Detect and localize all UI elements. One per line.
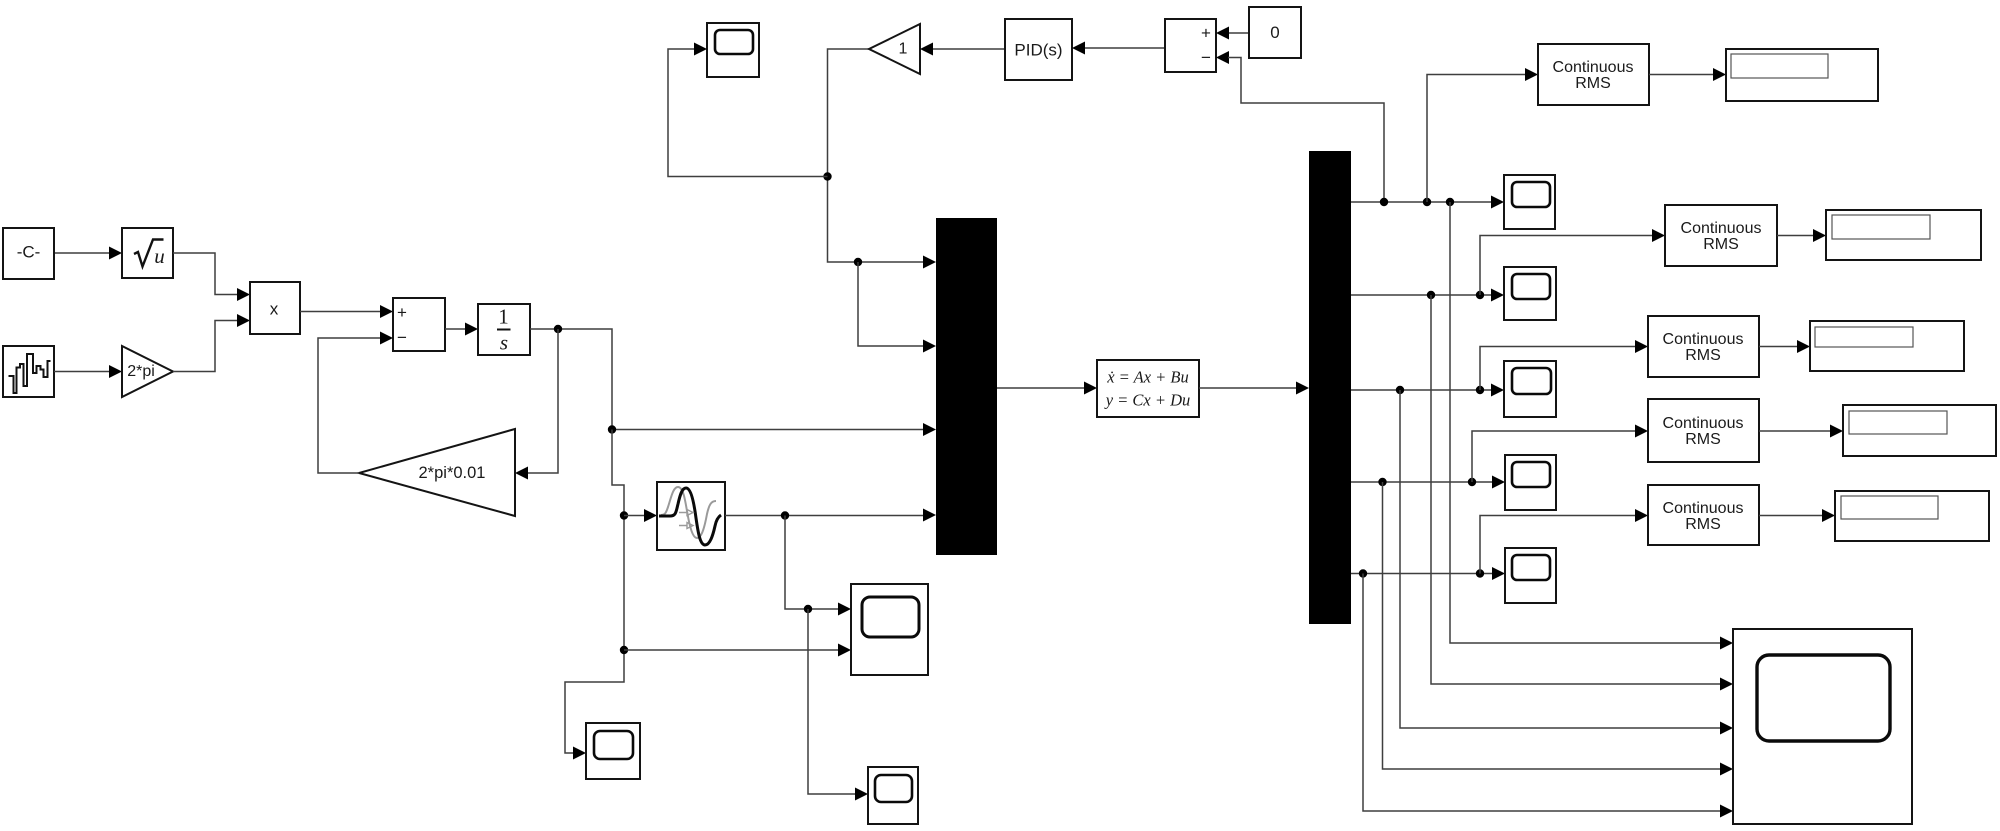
wire gain1 to scope / mux bbox=[823, 49, 936, 269]
wire branch up to RMS4 bbox=[1472, 425, 1648, 483]
wire branch to bottom-right scope bbox=[808, 609, 868, 801]
wire RMS3 to display3 bbox=[1759, 340, 1810, 353]
scope B (two-input) bbox=[851, 584, 928, 675]
svg-text:-C-: -C- bbox=[17, 243, 41, 262]
integrator 1/s bbox=[478, 304, 530, 355]
wire mux to state-space bbox=[997, 382, 1097, 395]
wire RMS2 to display2 bbox=[1777, 229, 1826, 242]
svg-text:2*pi: 2*pi bbox=[127, 363, 155, 380]
gain 2*pi*0.01 bbox=[359, 429, 515, 516]
wire sqrt to product bbox=[173, 253, 250, 301]
svg-text:2*pi*0.01: 2*pi*0.01 bbox=[419, 464, 486, 482]
wire PID to gain1 bbox=[920, 43, 1005, 56]
wire constant 0 to sum2 plus bbox=[1216, 27, 1249, 40]
wire branch to mux input2 bbox=[858, 262, 936, 353]
wire branch up to RMS2 bbox=[1480, 229, 1665, 295]
svg-text:u: u bbox=[154, 244, 165, 268]
wire branch down to big scope in2 bbox=[1431, 295, 1733, 691]
svg-text:0: 0 bbox=[1270, 23, 1279, 42]
wire sine output to mux input4 bbox=[725, 509, 936, 522]
display 3 bbox=[1810, 321, 1964, 371]
wire gain 2*pi*0.01 to sum minus bbox=[318, 332, 393, 474]
svg-text:RMS: RMS bbox=[1685, 431, 1721, 448]
svg-text:y = Cx + Du: y = Cx + Du bbox=[1104, 391, 1191, 410]
PID controller bbox=[1005, 19, 1072, 80]
scope 1 bbox=[1504, 175, 1555, 229]
constant -C- bbox=[3, 228, 54, 279]
svg-text:1: 1 bbox=[899, 41, 908, 58]
mux bbox=[936, 218, 997, 555]
gain 1 (left pointing) bbox=[869, 24, 920, 74]
svg-text:Continuous: Continuous bbox=[1681, 220, 1762, 237]
svg-text:RMS: RMS bbox=[1703, 236, 1739, 253]
svg-text:Continuous: Continuous bbox=[1553, 59, 1634, 76]
scope 2 bbox=[1504, 267, 1556, 320]
svg-text:Continuous: Continuous bbox=[1663, 415, 1744, 432]
wire into sine block bbox=[624, 509, 657, 522]
svg-text:x: x bbox=[270, 300, 279, 319]
svg-text:−: − bbox=[397, 328, 407, 347]
wire feedback to gain 2*pi*0.01 bbox=[515, 329, 558, 480]
svg-text:+: + bbox=[1201, 24, 1211, 43]
wire branch up to RMS1 bbox=[1427, 68, 1538, 202]
wire demux out1 to scope1 bbox=[1351, 196, 1504, 209]
big scope (5 inputs) bbox=[1733, 629, 1912, 824]
svg-text:−: − bbox=[1201, 48, 1211, 67]
state-space block bbox=[1097, 360, 1199, 417]
wire branch down to big scope in4 bbox=[1383, 482, 1734, 776]
wire RMS4 to display4 bbox=[1759, 425, 1843, 438]
small scope bottom-left bbox=[586, 723, 640, 779]
svg-text:PID(s): PID(s) bbox=[1014, 41, 1062, 60]
RMS3 block bbox=[1648, 316, 1759, 377]
wire demux out3 to scope3 bbox=[1351, 384, 1504, 397]
display 4 bbox=[1843, 405, 1996, 456]
gain 2*pi bbox=[122, 346, 173, 397]
scope 5 bbox=[1505, 548, 1556, 603]
display 1 bbox=[1726, 49, 1878, 101]
wire branch down to big scope in3 bbox=[1400, 390, 1733, 735]
wire sum to integrator bbox=[445, 323, 478, 336]
svg-text:1: 1 bbox=[498, 305, 509, 329]
svg-text:ẋ = Ax + Bu: ẋ = Ax + Bu bbox=[1106, 368, 1189, 387]
product x bbox=[250, 282, 300, 334]
wire demux out4 to scope4 bbox=[1351, 476, 1505, 489]
svg-text:Continuous: Continuous bbox=[1663, 500, 1744, 517]
wire demux out5 to scope5 bbox=[1351, 567, 1505, 580]
sine function block bbox=[657, 482, 725, 550]
wire -C- to sqrt bbox=[54, 247, 122, 260]
svg-text:RMS: RMS bbox=[1575, 75, 1611, 92]
wire signal builder to gain 2*pi bbox=[54, 365, 122, 378]
wire branch down to big scope in1 bbox=[1450, 202, 1733, 650]
svg-text:Continuous: Continuous bbox=[1663, 331, 1744, 348]
svg-text:RMS: RMS bbox=[1685, 347, 1721, 364]
wire sine branch down to scope B input1 bbox=[785, 516, 851, 616]
wire branch to top scope bbox=[668, 43, 828, 177]
RMS2 block bbox=[1665, 205, 1777, 266]
wire sum2 minus from demux out1 bbox=[1216, 51, 1384, 202]
display 2 bbox=[1826, 210, 1981, 260]
wire RMS1 to display1 bbox=[1649, 68, 1726, 81]
RMS1 block bbox=[1538, 44, 1649, 105]
wire RMS5 to display5 bbox=[1759, 509, 1835, 522]
wire integrator output with junction bbox=[530, 325, 936, 436]
demux bbox=[1309, 151, 1351, 624]
wire branch up to RMS3 bbox=[1480, 340, 1648, 390]
wire gain 2*pi to product bbox=[173, 314, 250, 372]
svg-text:+: + bbox=[397, 303, 407, 322]
display 5 bbox=[1835, 491, 1989, 541]
scope 4 bbox=[1505, 455, 1556, 510]
small scope bottom-right bbox=[868, 767, 918, 824]
svg-text:RMS: RMS bbox=[1685, 516, 1721, 533]
signal builder block bbox=[3, 346, 54, 397]
svg-text:s: s bbox=[500, 331, 508, 355]
sum block 1 bbox=[393, 298, 445, 351]
wire trunk down to sine, scopes bbox=[565, 430, 628, 760]
sum block 2 (flipped) bbox=[1165, 19, 1216, 72]
wire branch down to big scope in5 bbox=[1363, 574, 1733, 818]
sqrt block U=sqrt(u) bbox=[122, 228, 173, 278]
top scope bbox=[707, 23, 759, 77]
scope 3 bbox=[1504, 361, 1556, 417]
wire to scope B input2 bbox=[624, 644, 851, 657]
wire state-space to demux bbox=[1199, 382, 1309, 395]
wire demux out2 to scope2 bbox=[1351, 289, 1504, 302]
constant 0 bbox=[1249, 7, 1301, 58]
wire sum2 to PID bbox=[1072, 42, 1165, 55]
wire product to sum bbox=[300, 305, 393, 318]
RMS5 block bbox=[1648, 485, 1759, 545]
wire branch up to RMS5 bbox=[1480, 509, 1648, 574]
RMS4 block bbox=[1648, 399, 1759, 462]
